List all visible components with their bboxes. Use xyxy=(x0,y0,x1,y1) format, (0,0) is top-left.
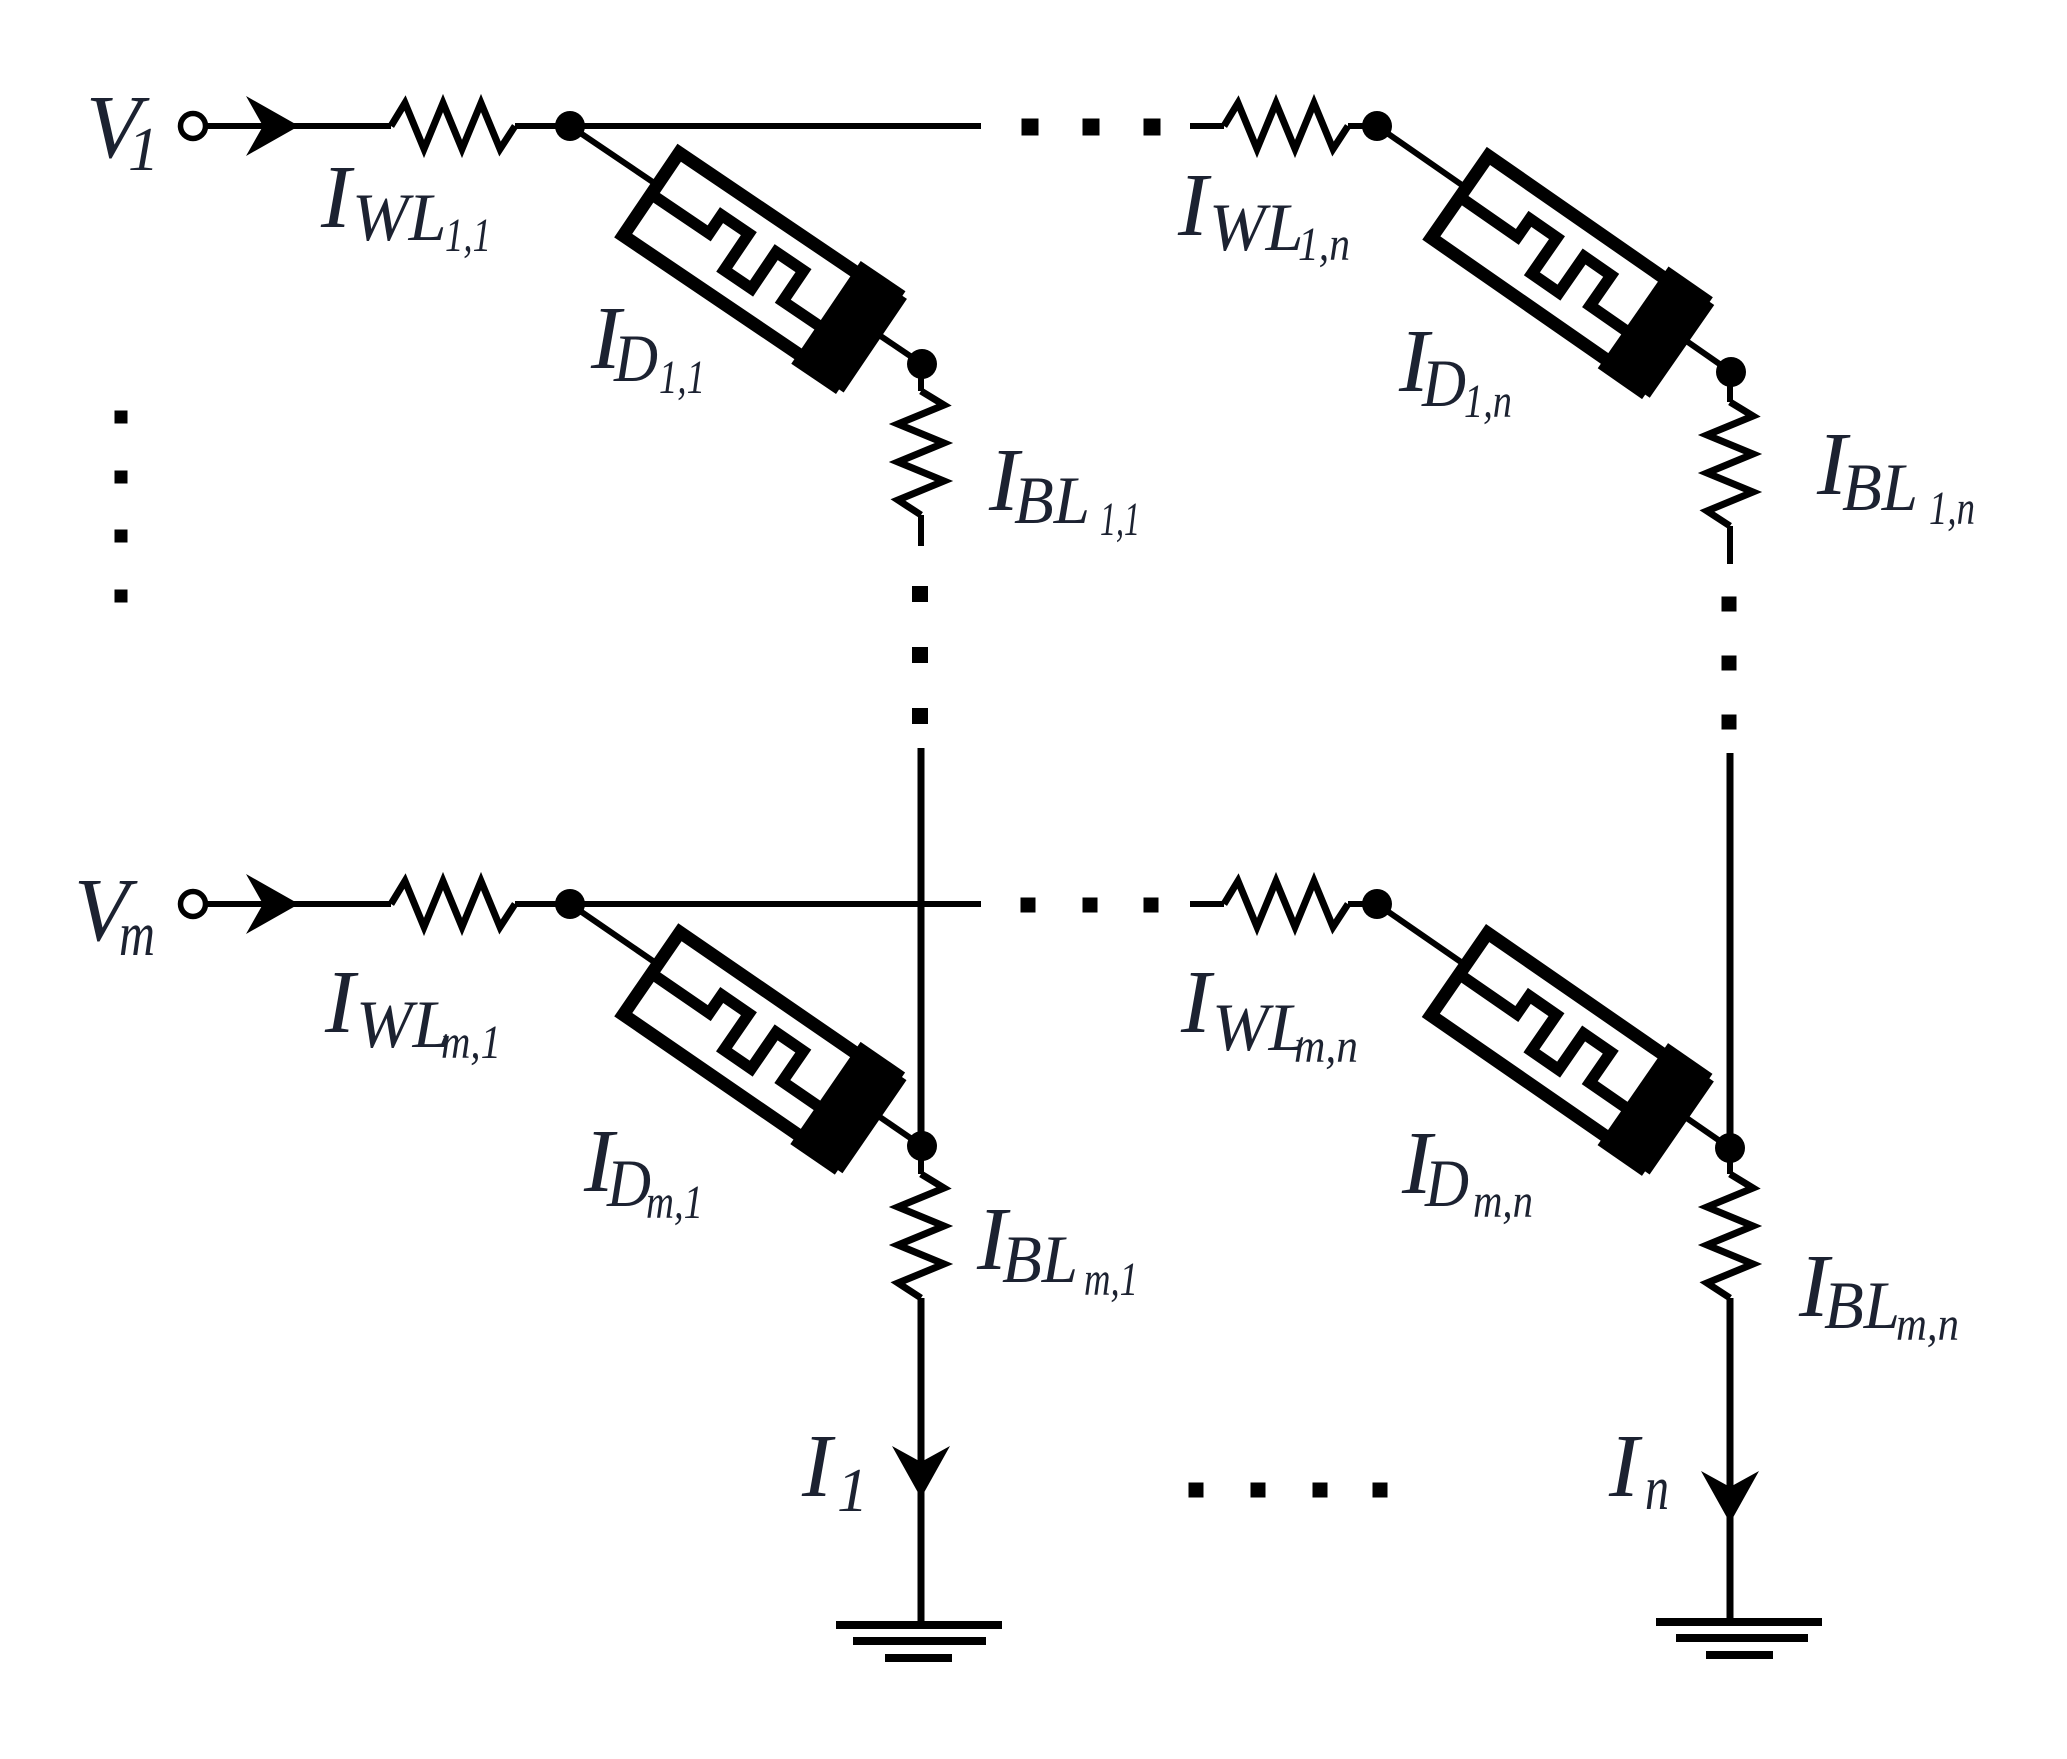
memristor Dm,n xyxy=(1421,921,1713,1176)
dots word line m xyxy=(1021,898,1036,913)
svg-text:m,n: m,n xyxy=(1294,1020,1358,1073)
svg-text:WL: WL xyxy=(352,179,446,255)
ground bit line 1 xyxy=(836,1621,1002,1629)
wire bit line 1 stub m xyxy=(918,1146,924,1174)
svg-text:1: 1 xyxy=(837,1457,868,1525)
node bit line 1 - cell m,1 xyxy=(907,1131,937,1161)
wire bit line n stub m xyxy=(1727,1148,1733,1174)
svg-text:m,1: m,1 xyxy=(1084,1253,1138,1306)
input arrow row m xyxy=(246,874,299,934)
svg-text:1,n: 1,n xyxy=(1464,375,1512,428)
wire word line m resistor-node xyxy=(515,901,570,907)
wire memristor D1,1 xyxy=(570,126,922,364)
svg-text:WL: WL xyxy=(1212,989,1306,1065)
svg-text:D: D xyxy=(1424,1145,1469,1221)
memristor Dm,1 xyxy=(613,920,905,1175)
terminal Vm xyxy=(181,892,206,917)
svg-text:WL: WL xyxy=(1209,189,1303,265)
svg-text:1,1: 1,1 xyxy=(659,351,705,404)
resistor R_WL1,1 xyxy=(391,103,515,149)
wire memristor Dm,n xyxy=(1377,904,1730,1148)
dots bit lines bottom xyxy=(1189,1483,1204,1498)
svg-text:m,1: m,1 xyxy=(441,1016,501,1069)
svg-text:I: I xyxy=(1180,953,1215,1052)
resistor R_BLm,1 xyxy=(898,1174,944,1298)
resistor R_BL1,1 xyxy=(898,391,944,515)
svg-text:BL: BL xyxy=(1002,1221,1078,1297)
wire word line 1 resistor-node n xyxy=(1348,123,1377,129)
svg-text:D: D xyxy=(613,320,658,396)
svg-text:D: D xyxy=(606,1145,651,1221)
svg-text:BL: BL xyxy=(1014,462,1090,538)
terminal V1 xyxy=(181,114,206,139)
node bit line 1 top xyxy=(907,349,937,379)
dots rows left margin xyxy=(115,411,128,424)
input arrow row 1 xyxy=(246,96,299,156)
svg-text:1: 1 xyxy=(128,116,159,184)
wire bit line n below resistor xyxy=(1727,526,1733,564)
svg-text:BL: BL xyxy=(1824,1267,1900,1343)
dots word line 1 xyxy=(1022,119,1039,136)
wire word line 1 input xyxy=(205,123,391,129)
arrow I1 xyxy=(892,1446,950,1498)
node word line m - cell m,1 xyxy=(555,889,585,919)
wire memristor Dm,1 xyxy=(570,904,922,1146)
svg-text:I: I xyxy=(324,953,359,1052)
svg-text:BL: BL xyxy=(1842,449,1918,525)
wire word line 1 xyxy=(570,123,981,129)
wire bit line n stub xyxy=(1727,372,1733,402)
wire bit line 1 stub xyxy=(918,364,924,391)
svg-text:1,1: 1,1 xyxy=(1100,493,1140,546)
svg-text:m,n: m,n xyxy=(1896,1298,1959,1351)
svg-text:1,n: 1,n xyxy=(1298,218,1350,271)
wire word line 1 right xyxy=(1190,123,1224,129)
svg-text:m: m xyxy=(119,901,155,969)
svg-text:m,1: m,1 xyxy=(646,1176,703,1229)
wire word line 1 resistor-node xyxy=(515,123,570,129)
memristor D1,n xyxy=(1421,144,1713,399)
resistor R_BLm,n xyxy=(1707,1174,1753,1298)
resistor R_WL1,n xyxy=(1224,103,1348,149)
resistor R_WLm,1 xyxy=(391,881,515,927)
wire bit line n long xyxy=(1727,753,1734,1148)
node bit line n top xyxy=(1716,357,1746,387)
arrow In xyxy=(1701,1471,1759,1523)
wire word line m right xyxy=(1190,901,1224,907)
wire memristor D1,n xyxy=(1377,126,1731,372)
wire word line m xyxy=(570,901,981,907)
dots bit line 1 xyxy=(912,586,928,602)
wire bit line 1 to ground xyxy=(918,1298,925,1625)
svg-text:1,1: 1,1 xyxy=(445,209,491,262)
node word line 1 - cell 1,n xyxy=(1362,111,1392,141)
wire word line m resistor-node n xyxy=(1348,901,1377,907)
svg-text:m,n: m,n xyxy=(1473,1175,1533,1228)
wire bit line 1 below resistor xyxy=(918,515,924,546)
memristor D1,1 xyxy=(613,141,905,394)
wire bit line 1 long xyxy=(918,748,925,1146)
node word line m - cell m,n xyxy=(1362,889,1392,919)
resistor R_WLm,n xyxy=(1224,881,1348,927)
svg-text:1,n: 1,n xyxy=(1929,482,1975,535)
node bit line n - cell m,n xyxy=(1715,1133,1745,1163)
wire bit line n to ground xyxy=(1727,1298,1734,1619)
dots bit line n xyxy=(1722,597,1737,612)
svg-text:I: I xyxy=(1177,156,1212,255)
ground bit line n xyxy=(1656,1618,1822,1626)
svg-text:I: I xyxy=(1608,1417,1643,1516)
svg-text:WL: WL xyxy=(356,986,450,1062)
wire word line m input xyxy=(205,901,391,907)
svg-text:I: I xyxy=(320,148,355,247)
resistor R_BL1,n xyxy=(1707,402,1753,526)
node word line 1 - cell 1,1 xyxy=(555,111,585,141)
svg-text:I: I xyxy=(801,1417,836,1516)
svg-text:D: D xyxy=(1421,345,1466,421)
svg-text:n: n xyxy=(1645,1455,1669,1523)
